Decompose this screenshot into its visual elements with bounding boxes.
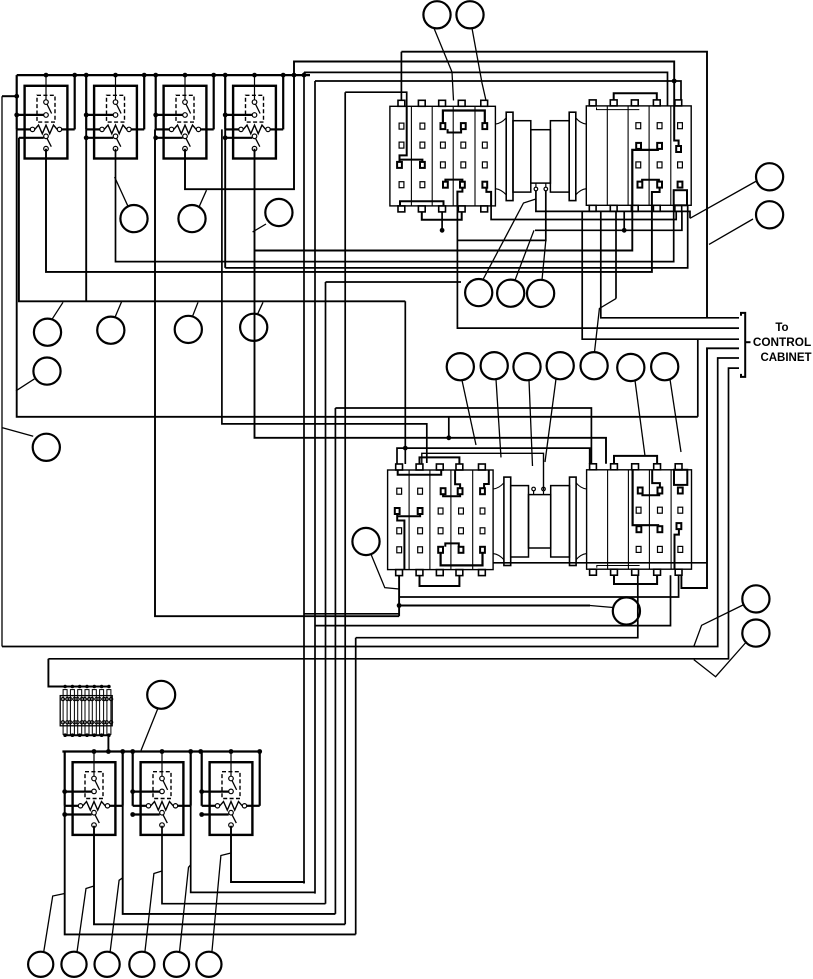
callout 12 (on left riser) (33, 358, 60, 385)
upper-right connector J2 bottom tab 3 (631, 205, 638, 211)
callout 33 (164, 952, 189, 977)
riser x405 from y301 to J3 tabs (404, 301, 406, 464)
upper-left connector J1 divider (474, 106, 476, 206)
relay K5 switch blade (95, 815, 99, 823)
leader 4 (right upper) (709, 219, 753, 244)
lower-right connector J4 top tab 2 (611, 464, 618, 470)
callout 28 (fuse block) (147, 681, 175, 709)
upper-right connector J2 col5 terminal box (678, 182, 683, 188)
relay K4 case (233, 86, 276, 159)
relay K7 switch blade (232, 815, 236, 823)
leader 2 (top) (472, 28, 486, 100)
wire coil feed (133, 790, 160, 792)
lower-left connector J3 divider (429, 470, 431, 570)
upper-left connector J1 pin col3 row3 (441, 162, 446, 168)
lower-right connector J4 bottom tab 3 (632, 569, 639, 575)
leader 22 (515, 230, 534, 280)
mid bus y408 to J4 top (335, 408, 591, 463)
fuse F5 (92, 690, 96, 735)
lower-left connector J3 bottom tab 1 (396, 570, 403, 576)
relay K5 coil blade (95, 781, 100, 790)
lower-right connector J4 col5 entry wire to pin row2 (675, 529, 679, 569)
wire K1 coil branch to far-left riser (2, 95, 17, 97)
wire y92 bus into J1 jumper (345, 92, 407, 106)
wire w5 long bus y645 (2, 358, 739, 647)
wire coil feed K3 (156, 114, 183, 116)
relay K1 switch contact lower (44, 146, 49, 151)
wire K1 enclosure to control riser (lower bus) (17, 129, 698, 416)
upper-left connector J1 top tab 5 (481, 100, 488, 106)
leader 10 (193, 302, 199, 316)
relay K6 heater zigzag (151, 802, 173, 811)
wire terminal-a to circle 3 attach (536, 191, 690, 219)
jumper strap below J3 tabs2-4 (420, 576, 460, 586)
wire J2 to control cabinet w3 (582, 211, 739, 339)
leader 6 (K3 wire) (199, 190, 207, 207)
relay K1 coil dashed box (37, 95, 55, 122)
svg-text:CONTROL: CONTROL (753, 335, 811, 349)
leader 30 (77, 886, 94, 952)
riser x449 y417 to y438 (448, 417, 450, 438)
leader 17 (545, 379, 556, 462)
jumper strap above J2 tabs2-4 (614, 93, 657, 100)
relay K5 heater zigzag (83, 802, 105, 811)
lower-left connector J3 U-link row1 col3-col4 (445, 543, 459, 546)
upper flange left (506, 112, 513, 200)
callout 13 (on far-left riser) (33, 434, 60, 461)
relay K6 coil contact lower (160, 789, 165, 794)
lower-right connector J4 top tab 1 (590, 464, 597, 470)
wire coil feed (202, 790, 229, 792)
lower-left connector J3 pin col4 row2 (459, 528, 464, 534)
leader 34 (212, 853, 231, 952)
relay K1 heater terminal right (57, 127, 61, 131)
lower-right connector J4 jumper row4 c3-c4 with exit (642, 494, 659, 496)
fuse holder body (60, 696, 112, 726)
relay K2 switch contact upper (113, 134, 118, 139)
lower-right connector J4 top tab 4 (654, 464, 661, 470)
top supply bus (17, 74, 310, 76)
upper-right connector J2 divider (627, 106, 629, 205)
upper barrel center (531, 130, 551, 183)
lower-right connector J4 pin row3 (658, 507, 663, 513)
lower-left connector J3 pin col2 row3 (wired) (418, 508, 423, 514)
lower-right connector J4 pin row1 (678, 546, 683, 552)
lower-right connector J4 pin row3 (678, 507, 683, 513)
mid bus y638 to J4 tab3 (356, 575, 638, 638)
leader 11 (258, 302, 264, 314)
riser x345 (344, 92, 346, 924)
riser x698 joins w3 (697, 339, 699, 417)
lower-left connector J3 pin col2 row1 (418, 547, 423, 553)
upper-left connector J1 bottom jumper bracket tab1-tab3 (400, 201, 444, 206)
leader 26 (right lower) (694, 605, 743, 647)
bus junction dot (252, 73, 257, 78)
bus junction dot (113, 73, 118, 78)
callout 8 (34, 319, 61, 346)
upper-left connector J1 top tab 4 (458, 100, 465, 106)
upper-left connector J1 pin col5 row3 (482, 162, 487, 168)
lower-right connector J4 top tab 5 (675, 464, 682, 470)
callout 2 (top) (456, 1, 483, 28)
jumper strap below J4 tabs2-4 (614, 575, 657, 584)
wire J2 tab2 down (circle 18 target) (615, 211, 617, 298)
leader 29 (44, 894, 65, 953)
lower-left connector J3 body (388, 470, 494, 570)
leader 3 (right upper) (690, 181, 757, 218)
leader 24 (J3) (371, 554, 399, 589)
wire K3 switch via top bus to J2 col5 (185, 62, 674, 190)
wire coil feed K1 (17, 114, 44, 116)
leader 18 (595, 299, 617, 353)
callout 32 (129, 952, 154, 977)
upper-left connector J1 bottom tab 4 (458, 206, 465, 212)
lower-left connector J3 pin col1 row1 (397, 547, 402, 553)
lower terminal b (542, 487, 546, 491)
riser x325 (325, 282, 327, 904)
relay K3 coil dashed box (176, 95, 194, 122)
callout 31 (95, 952, 120, 977)
wire K4 switch long drop to J4 (255, 149, 607, 464)
relay K2 heater terminal left (100, 127, 104, 131)
wire top loop to control cabinet w1 (401, 52, 707, 318)
relay K5 coil contact lower (92, 789, 97, 794)
lower-left connector J3 pin col4 row1 (wired) (459, 547, 464, 553)
lower-left connector J3 bottom tab 5 (479, 570, 486, 576)
lower-left connector J3 pin col3 row2 (438, 528, 443, 534)
bus y626 to J4 (315, 575, 671, 625)
relay K5 heater terminal left (78, 804, 82, 808)
relay K1 switch blade (47, 138, 51, 146)
leader 25 (J4) (590, 606, 613, 608)
harness y892 (191, 806, 315, 893)
relay K6 switch contact upper (160, 810, 165, 815)
upper-right connector J2 bottom tab 4 (653, 205, 660, 211)
lower barrel left (511, 486, 529, 557)
upper-right connector J2 jumper row4 c3-c4 with exit (642, 180, 659, 182)
lower-left connector J3 pin col1 row4 (397, 488, 402, 494)
relay K2 case (94, 86, 137, 159)
leader 13 (on far-left riser) (3, 428, 34, 437)
harness y925 (94, 826, 345, 925)
riser x335 (334, 408, 336, 914)
upper-left connector J1 jumper branch to col2 (400, 160, 423, 162)
fuse F4 (85, 690, 89, 735)
relay K2 coil contact upper (113, 100, 118, 105)
upper barrel right (550, 121, 569, 192)
upper-left connector J1 pin col2 row1 (420, 123, 425, 129)
lower-left connector J3 top tab 2 (416, 464, 423, 470)
fuse F3 (78, 690, 82, 735)
wire K1 switch to J2 (46, 149, 652, 272)
wire K3 enclosure riser to J3 bus (155, 129, 399, 616)
svg-text:To: To (775, 322, 788, 334)
callout 29 (28, 952, 53, 977)
lower-left connector J3 pin col2 row2 (418, 528, 423, 534)
callout 27 (right lower) (742, 620, 769, 647)
relay K6 heater terminal right (173, 804, 177, 808)
upper-right connector J2 top tab 4 (653, 100, 660, 106)
upper-left connector J1 body (390, 106, 496, 206)
upper-left connector J1 divider (410, 106, 412, 206)
relay K2 switch blade (117, 138, 121, 146)
upper-left connector J1 bottom tab 1 (398, 206, 405, 212)
relay K6 case (141, 762, 184, 835)
lower-right connector J4 bottom tab 5 (675, 569, 682, 575)
relay K3 enclosure loop (155, 75, 157, 129)
lower-left connector J3 pin col3 row1 (wired) (438, 547, 443, 553)
relay K3 switch contact upper (183, 134, 188, 139)
riser x315 (314, 81, 316, 894)
bus y605 with callout 25 (399, 605, 590, 607)
upper-right connector J2 bottom tab 1 (589, 205, 596, 211)
harness y935 (65, 806, 356, 935)
relay K1 enclosure loop (16, 75, 18, 129)
upper-left connector J1 pin col5 row2 (482, 142, 487, 148)
callout 21 (465, 279, 492, 306)
callout 24 (J3) (352, 528, 379, 555)
relay K4 enclosure loop (224, 75, 226, 129)
callout 34 (196, 952, 221, 977)
upper-left connector J1 pin col2 row2 (420, 142, 425, 148)
bracket center tick (745, 341, 750, 343)
wire coil feed K2 (86, 114, 113, 116)
relay K3 heater terminal right (196, 127, 200, 131)
wire J3 edge to x707 (493, 562, 707, 564)
wire switch feed (86, 137, 113, 139)
relay K7 heater zigzag (220, 802, 242, 811)
relay K6 coil blade (163, 781, 168, 790)
lower-right connector J4 bottom tab 4 (654, 569, 661, 575)
relay K1 heater zigzag (35, 125, 57, 134)
upper-right connector J2 top tab 3 (631, 100, 638, 106)
upper-right connector J2 top tab 1 (589, 100, 596, 106)
upper-left connector J1 pin col1 row4 (399, 182, 404, 188)
upper-right connector J2 body (586, 106, 691, 205)
fuse feed wire (48, 659, 63, 687)
relay K5 coil contact upper (92, 776, 97, 781)
upper-left connector J1 pin col4 row3 (461, 162, 466, 168)
relay K7 heater terminal right (242, 804, 246, 808)
lower-left connector J3 pin col2 row4 (418, 488, 423, 494)
relay K7 coil contact upper (229, 776, 234, 781)
upper-left connector J1 pin col3 row2 (441, 142, 446, 148)
callout 30 (61, 952, 86, 977)
wire switch feed K1 (19, 137, 44, 139)
wire J2 to control cabinet w1 (601, 211, 739, 317)
upper-left connector J1 bottom tab 2 (418, 206, 425, 212)
leader 21 (483, 199, 536, 280)
harness y882 (231, 826, 304, 884)
callout 25 (J4) (613, 597, 640, 624)
callout 14 (447, 353, 474, 380)
wire bus to relay K5 coil (93, 752, 95, 777)
wire K1 switch feed riser and mid bus y301 (19, 138, 405, 301)
callout 9 (97, 317, 124, 344)
relay K7 coil contact lower (229, 789, 234, 794)
fuse F7 (107, 690, 111, 735)
fuse bottom bus (64, 734, 109, 736)
leader 19 (635, 381, 645, 456)
wire drop to J1 tab1 (400, 52, 402, 101)
upper terminal b (544, 187, 548, 191)
jumper strap below J1 tabs2-4 (422, 212, 462, 219)
upper-left connector J1 pin col5 row1 (wired) (482, 123, 487, 129)
lower barrel center (529, 495, 551, 548)
relay K5 case (73, 762, 116, 835)
upper-left connector J1 pin col1 row2 (399, 142, 404, 148)
lower-right connector J4 top tab 3 (632, 464, 639, 470)
lower-left connector J3 divider (472, 470, 474, 570)
upper-left connector J1 internal jumper to pins row3 col1-col2 (400, 106, 407, 162)
callout 7 (K4 wire) (265, 199, 292, 226)
upper-right connector J2 pin row3 (678, 162, 683, 168)
relay K3 switch contact lower (183, 146, 188, 151)
leader 5 (K2 wire) (115, 177, 128, 206)
relay K1 heater terminal left (30, 127, 34, 131)
lower-left connector J3 top tab 4 (456, 464, 463, 470)
lower terminal a (532, 487, 536, 491)
upper-left connector J1 top tab 2 (418, 100, 425, 106)
relay K1 coil contact upper (44, 100, 49, 105)
relay K4 switch contact upper (252, 134, 257, 139)
wire bus to relay K3 coil (184, 75, 186, 100)
wire K4 branch to J2 (255, 205, 633, 250)
lower-left connector J3 pin col5 row2 (480, 528, 485, 534)
lower-left connector J3 top tab 1 (396, 464, 403, 470)
wire K2 enclosure riser (85, 129, 87, 301)
upper-left connector J1 internal bridge col3-col5 row1 (443, 111, 485, 124)
relay K6 heater terminal left (146, 804, 150, 808)
upper-right connector J2 bottom tab 2 (610, 205, 617, 211)
wire J1 col5 exit to J2 tab5 (491, 206, 676, 220)
svg-text:CABINET: CABINET (760, 352, 811, 364)
wire K4 enclosure riser (224, 129, 226, 268)
callout 20 (651, 353, 678, 380)
relay K3 heater terminal left (169, 127, 173, 131)
wire bus to relay K2 coil (115, 75, 117, 100)
relay K5 heater terminal right (105, 804, 109, 808)
relay K6 coil dashed box (153, 772, 171, 799)
relay K5 switch contact lower (92, 823, 97, 828)
relay K6 enclosure loop (132, 752, 134, 806)
relay K4 switch blade (256, 138, 260, 146)
fuse F2 (70, 690, 74, 735)
lower-left connector J3 pin col5 row3 (480, 508, 485, 514)
far-left riser (1, 96, 3, 646)
relay K3 switch blade (186, 138, 190, 146)
relay K7 coil dashed box (222, 772, 240, 799)
bus y453 J3 tab2 to lower terminal-b (422, 453, 544, 490)
upper-left connector J1 pin col4 row2 (461, 142, 466, 148)
bus junction dot (183, 73, 188, 78)
lower coupling terminals (533, 491, 535, 495)
callout 19 (617, 354, 644, 381)
leader 12 (on left riser) (16, 379, 34, 391)
relay K2 heater terminal right (127, 127, 131, 131)
lower-right connector J4 divider (648, 470, 650, 569)
lower-left connector J3 jumper row4 col3-col4 with exit (443, 494, 460, 496)
wire y81 bus to J2 tab5 top (315, 81, 681, 100)
relay K3 case (164, 86, 207, 159)
upper-left connector J1 divider (431, 106, 433, 206)
relay K7 enclosure loop (201, 752, 203, 806)
J2 tab2 drop (623, 211, 625, 230)
upper-right connector J2 top tab 5 (675, 100, 682, 106)
lower-left connector J3 pin col5 row1 (wired) (480, 547, 485, 553)
callout 15 (481, 352, 508, 379)
upper-right connector J2 divider (606, 106, 608, 205)
wire y230 to J2 tab5 (535, 211, 682, 230)
upper-right connector J2 internal bridge row2 c3-c4 (632, 150, 659, 205)
wire bus to relay K4 coil (254, 75, 256, 100)
lower-left connector J3 divider (450, 470, 452, 570)
upper-right connector J2 pin row1 (636, 123, 641, 129)
upper-left connector J1 top tab 3 (439, 100, 446, 106)
lower-right connector J4 bottom tab 1 (590, 569, 597, 575)
leader 16 (529, 380, 533, 466)
callout 18 (581, 352, 608, 379)
relay K7 heater terminal left (215, 804, 219, 808)
bottom supply bus (62, 750, 259, 752)
upper terminal a (534, 187, 538, 191)
upper-right connector J2 top tab 2 (610, 100, 617, 106)
relay K5 enclosure loop (64, 752, 66, 806)
upper-right connector J2 shelf line (597, 107, 640, 109)
wire mid bus y268 to J2 (225, 205, 688, 268)
relay K4 coil blade (256, 104, 261, 113)
upper-left connector J1 top tab 1 (398, 100, 405, 106)
lower-left connector J3 pin col1 row2 (397, 528, 402, 534)
lower-right connector J4 internal bridge row2 c3-c4 (633, 470, 660, 525)
fuse F1 (63, 690, 67, 735)
lower-left connector J3 bottom tab 3 (436, 570, 443, 576)
callout 22 (497, 280, 524, 307)
relay K4 coil contact lower (252, 113, 257, 118)
callout 4 (right upper) (756, 201, 783, 228)
callout 6 (K3 wire) (178, 205, 205, 232)
leader 8 (52, 302, 63, 319)
callout 23 (527, 280, 554, 307)
lower-right connector J4 divider (607, 470, 609, 569)
fuse F6 (100, 690, 104, 735)
callout 10 (175, 316, 202, 343)
relay K4 coil contact upper (252, 100, 257, 105)
relay K1 coil contact lower (44, 113, 49, 118)
wire bus to relay K7 coil (230, 752, 232, 777)
leader 20 (670, 379, 681, 452)
relay K1 case (25, 86, 68, 159)
lower-right connector J4 divider (627, 470, 629, 569)
wire y72 bus to J2 top (304, 72, 668, 106)
wire switch feed (133, 813, 160, 815)
lower-left connector J3 top tab 3 (436, 464, 443, 470)
upper-left connector J1 pin col3 row1 (wired) (441, 123, 446, 129)
wire switch feed (156, 137, 183, 139)
lower-right connector J4 pin row3 (636, 507, 641, 513)
upper coupling terminals (535, 183, 537, 187)
relay K4 heater zigzag (243, 125, 265, 134)
upper-right connector J2 pin row3 (636, 162, 641, 168)
wire J3 tab1 drop (398, 576, 400, 617)
upper-right connector J2 pin row1 (657, 123, 662, 129)
bus y448 J3 tab1 to J4 tab1 (397, 448, 590, 464)
wire switch feed (202, 813, 229, 815)
upper-left connector J1 U-link row1 col3-col4 (448, 129, 462, 132)
relay K4 heater terminal right (266, 127, 270, 131)
upper-right connector J2 bottom tab 5 (675, 205, 682, 211)
upper-left connector J1 pin col1 row1 (399, 123, 404, 129)
